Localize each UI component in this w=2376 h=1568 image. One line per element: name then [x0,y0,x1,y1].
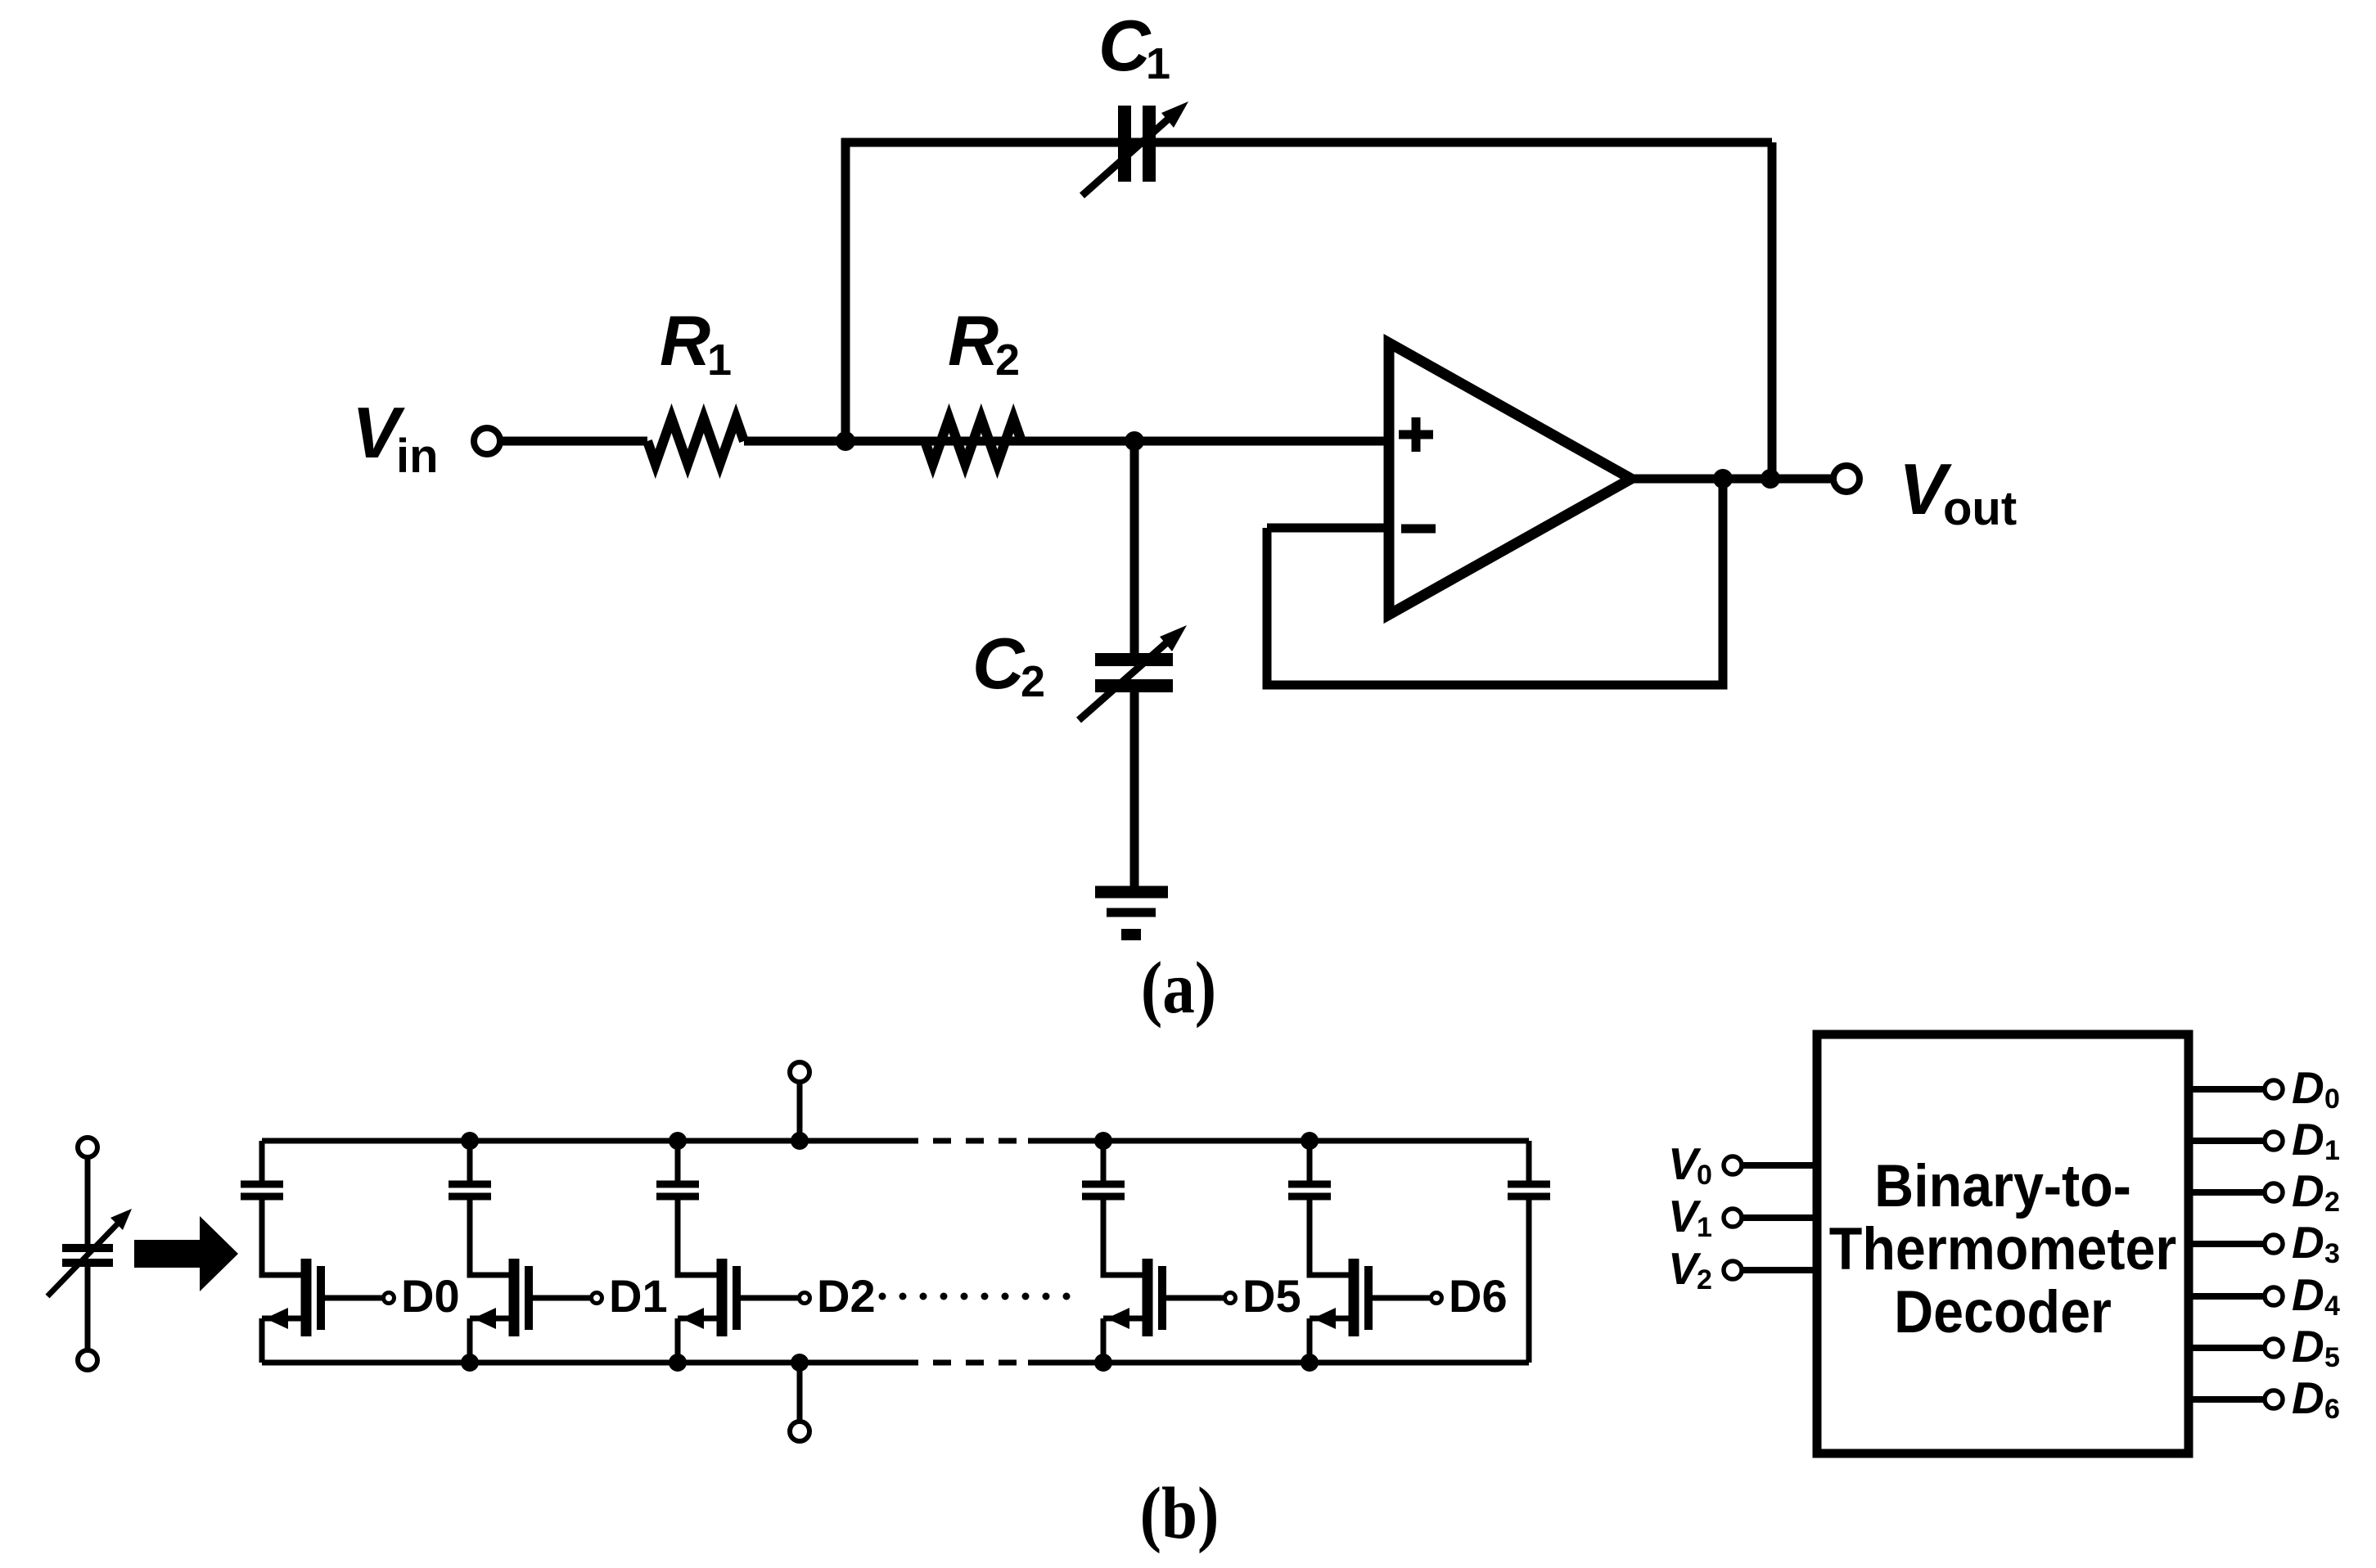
wire C2 to ground [1130,692,1139,890]
varactor plates [62,1244,113,1252]
svg-text:1: 1 [707,336,732,385]
varactor wire bottom [85,1267,91,1350]
top terminal [797,1082,803,1141]
svg-text:2: 2 [995,336,1020,385]
decoder output D4 [2189,1293,2264,1300]
transistor D0 channel bar [301,1259,312,1336]
wire cap to drain [1310,1200,1349,1275]
gate lead D1 [533,1295,591,1301]
top rail junction x=574 [461,1132,479,1150]
transistor D5 gate bar [1158,1266,1166,1330]
gate terminal D2 [800,1293,810,1304]
bottom rail junction x=1348 [1094,1354,1112,1372]
svg-text:1: 1 [1697,1212,1712,1243]
svg-text:1: 1 [2324,1135,2340,1166]
branch wire D5 (cap top) [1101,1141,1107,1181]
svg-text:D2: D2 [817,1270,876,1322]
capacitor D1 branch [449,1181,491,1188]
output junction dot 1 [1713,469,1733,489]
varactor wire top [85,1157,91,1244]
top rail junction x=1348 [1094,1132,1112,1150]
source lead with arrow [262,1316,301,1322]
svg-text:C: C [1098,5,1152,86]
op-amp U1 [1389,343,1631,615]
source lead with arrow [1103,1316,1143,1322]
top rail junction x=828 [669,1132,687,1150]
capacitor C2 plates [1095,653,1173,666]
source lead with arrow [1310,1316,1349,1322]
source lead with arrow [678,1316,717,1322]
varactor terminal top [78,1138,97,1157]
svg-text:R: R [948,302,999,381]
svg-text:D: D [2292,1114,2324,1165]
ground [1095,886,1168,899]
input terminal Vin [474,428,500,454]
end cap branch [1526,1141,1532,1181]
svg-text:3: 3 [2324,1238,2340,1269]
gate terminal D5 [1225,1293,1236,1304]
source lead with arrow [470,1316,509,1322]
svg-text:D: D [2292,1321,2324,1372]
svg-text:1: 1 [1146,39,1170,88]
decoder output D2 [2189,1189,2264,1196]
gate terminal D6 [1431,1293,1442,1304]
svg-text:D1: D1 [609,1270,668,1322]
capacitor C1 plates [1118,106,1131,182]
wire source to bottom rail [1307,1318,1313,1363]
svg-text:Thermometer: Thermometer [1829,1215,2176,1282]
decoder output D0 [2189,1086,2264,1093]
svg-text:D: D [2292,1217,2324,1268]
branch wire D6 (cap top) [1307,1141,1313,1181]
svg-text:(a): (a) [1141,947,1216,1029]
bottom rail junction x=574 [461,1354,479,1372]
svg-text:0: 0 [2324,1084,2340,1115]
capacitor D5 branch [1082,1181,1125,1188]
svg-text:D: D [2292,1372,2324,1423]
output terminal [1833,466,1860,492]
wire node B down to C2 [1130,441,1139,653]
capacitor D0 branch [241,1181,283,1188]
C2 arrow [1079,641,1169,720]
transistor D1 channel bar [509,1259,520,1336]
node A junction [836,431,855,451]
bottom rail junction x=977 [791,1354,809,1372]
decoder output D6 [2189,1396,2264,1403]
transistor D6 gate bar [1364,1266,1373,1330]
svg-text:R: R [660,302,710,381]
gate terminal D1 [592,1293,602,1304]
bottom terminal [797,1363,803,1422]
cap bank top rail [262,1138,900,1144]
capacitor D6 branch [1288,1181,1331,1188]
svg-text:Decoder: Decoder [1894,1278,2112,1345]
branch wire D2 (cap top) [675,1141,681,1181]
varactor arrow [47,1223,118,1296]
svg-text:2: 2 [1697,1264,1712,1295]
gate lead D5 [1166,1295,1224,1301]
wire Vin to R1 [500,437,647,446]
svg-text:D: D [2292,1269,2324,1320]
op-amp plus sign [1399,430,1433,439]
output junction dot 2 [1761,469,1780,489]
capacitor D2 branch [656,1181,699,1188]
wire source to bottom rail [259,1318,265,1363]
svg-text:4: 4 [2324,1291,2340,1322]
gate lead D0 [325,1295,383,1301]
svg-text:D0: D0 [401,1270,460,1322]
decoder input V0 [1742,1162,1817,1169]
decoder box [1817,1034,2189,1453]
svg-text:D5: D5 [1242,1270,1301,1322]
svg-text:out: out [1943,482,2017,535]
top rail junction x=1600 [1301,1132,1319,1150]
wire cap to drain [470,1200,509,1275]
svg-text:2: 2 [1021,657,1045,706]
svg-text:D: D [2292,1062,2324,1113]
node B junction [1125,431,1144,451]
transistor D1 gate bar [525,1266,533,1330]
top wire through C1 [841,138,1772,147]
wire cap to drain [262,1200,301,1275]
wire cap to drain [1103,1200,1143,1275]
svg-text:Binary-to-: Binary-to- [1874,1152,2131,1219]
wire source to bottom rail [1101,1318,1107,1363]
resistor R2 [925,418,1021,464]
wire source to bottom rail [467,1318,473,1363]
wire cap to drain [678,1200,717,1275]
op-amp minus sign [1401,525,1436,534]
svg-text:C: C [972,623,1026,704]
transistor D0 gate bar [317,1266,325,1330]
svg-text:2: 2 [2324,1187,2340,1218]
cap bank bottom rail [262,1360,900,1366]
top rail junction x=977 [791,1132,809,1150]
bottom rail junction x=828 [669,1354,687,1372]
decoder output D5 [2189,1345,2264,1351]
svg-text:5: 5 [2324,1342,2340,1373]
decoder output D1 [2189,1138,2264,1144]
wire source to bottom rail [675,1318,681,1363]
svg-text:D: D [2292,1165,2324,1216]
resistor R1 [647,418,744,464]
bottom rail junction x=1600 [1301,1354,1319,1372]
right vertical from top wire to output [1768,142,1777,479]
wire node A up to C1 [841,138,850,446]
gate lead D2 [741,1295,799,1301]
transistor D5 channel bar [1143,1259,1153,1336]
branch wire D0 (cap top) [259,1141,265,1181]
transistor D2 channel bar [717,1259,728,1336]
decoder output D3 [2189,1241,2264,1247]
feedback wire [1267,479,1723,685]
branch wire D1 (cap top) [467,1141,473,1181]
dotted gate row [879,1293,1071,1300]
transistor D2 gate bar [733,1266,741,1330]
varactor terminal bottom [78,1350,97,1370]
svg-text:(b): (b) [1140,1472,1220,1554]
svg-text:D6: D6 [1449,1270,1508,1322]
gate terminal D0 [384,1293,394,1304]
svg-text:6: 6 [2324,1394,2340,1425]
transistor D6 channel bar [1349,1259,1359,1336]
gate lead D6 [1373,1295,1431,1301]
decoder input V1 [1742,1214,1817,1221]
decoder input V2 [1742,1267,1817,1273]
big arrow [134,1216,238,1291]
output wire [1631,475,1834,484]
svg-text:in: in [396,430,439,483]
svg-text:0: 0 [1697,1160,1712,1191]
wire R1 to op-amp [744,437,1389,446]
C1 arrow [1082,117,1170,196]
wire minus input [1267,524,1389,533]
